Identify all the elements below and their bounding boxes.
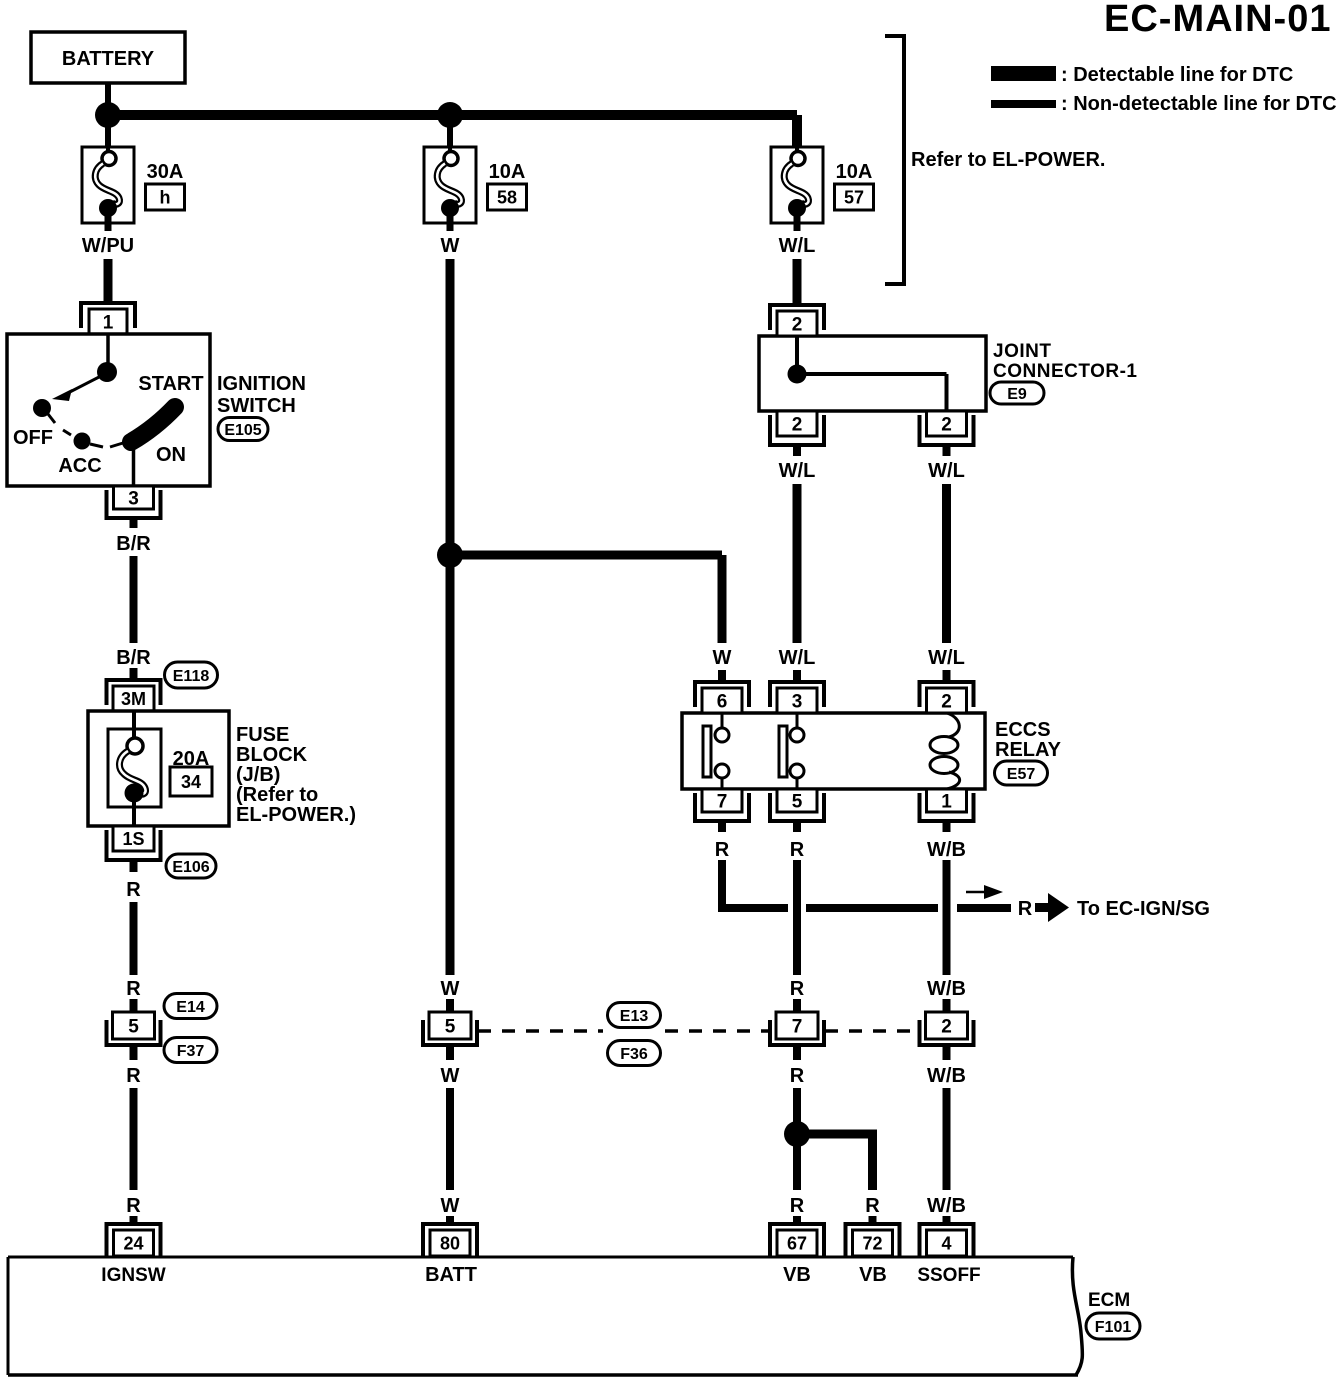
ECCS relay box [682, 713, 985, 789]
wire bus drop to fuse 57 [792, 115, 802, 147]
svg-text:BATT: BATT [425, 1264, 477, 1286]
fuse 30A h [82, 147, 134, 223]
wire W col2 to ECM [446, 1044, 454, 1060]
connector label E14 [164, 994, 217, 1019]
battery B1 [31, 32, 185, 83]
svg-text:OFF: OFF [13, 427, 53, 449]
wire relay pin6 drop [718, 555, 727, 643]
svg-text:7: 7 [717, 791, 728, 812]
connector label E9 [990, 382, 1044, 404]
svg-text:SSOFF: SSOFF [917, 1265, 980, 1286]
wire B/R long [130, 556, 138, 643]
svg-text:EC-MAIN-01: EC-MAIN-01 [1104, 0, 1331, 40]
connector 1S fuse block [107, 830, 161, 860]
relay contact 2 bar [779, 726, 787, 777]
wire pin3 stub [130, 518, 138, 528]
wire battery to junction [105, 83, 111, 104]
svg-text:2: 2 [792, 414, 803, 435]
svg-text:5: 5 [445, 1016, 456, 1037]
connector 3 relay [770, 682, 824, 707]
svg-text:58: 58 [497, 188, 517, 208]
connector 3 ignition switch pin 3 [107, 490, 161, 518]
svg-text:VB: VB [783, 1264, 811, 1286]
svg-text:W/PU: W/PU [82, 235, 134, 257]
svg-text:F36: F36 [620, 1046, 648, 1063]
flow arrow on R wire [966, 891, 990, 894]
fuse 10A 58 [424, 147, 476, 223]
svg-text:10A: 10A [489, 161, 526, 183]
svg-text:R: R [865, 1195, 880, 1217]
svg-text:BATTERY: BATTERY [62, 48, 155, 70]
wire pin7 down and right to EC-IGN/SG [718, 860, 726, 912]
page arrow to EC-IGN/SG [1035, 903, 1049, 912]
connector 5 col2 E13/F36 [423, 1020, 477, 1045]
svg-text:R: R [790, 978, 805, 1000]
contact ACC dot [74, 433, 91, 450]
legend detectable line sample [991, 66, 1056, 81]
svg-text:RELAY: RELAY [995, 739, 1062, 761]
svg-text:W/B: W/B [927, 1065, 966, 1087]
wire junction to relay pin 6 horizontal [450, 551, 722, 560]
svg-text:IGNITION: IGNITION [217, 373, 306, 395]
svg-text:W/L: W/L [928, 460, 965, 482]
wire W long down BATT column [446, 259, 455, 975]
relay contact 1 bar [703, 726, 711, 777]
svg-text:R: R [715, 839, 730, 861]
svg-text:1S: 1S [122, 829, 144, 849]
svg-text:6: 6 [717, 691, 728, 712]
svg-text:BLOCK: BLOCK [236, 744, 308, 766]
svg-text:CONNECTOR-1: CONNECTOR-1 [993, 361, 1138, 382]
svg-text:W/B: W/B [927, 839, 966, 861]
wire W/L col5 long [942, 484, 951, 643]
svg-text:30A: 30A [147, 161, 184, 183]
svg-text:W/B: W/B [927, 978, 966, 1000]
svg-text:Refer to EL-POWER.: Refer to EL-POWER. [911, 149, 1105, 171]
svg-text:B/R: B/R [116, 647, 151, 669]
svg-text:F101: F101 [1095, 1319, 1132, 1336]
svg-text:JOINT: JOINT [993, 341, 1051, 362]
wire R col4 to junction [793, 1044, 801, 1060]
connector 80 ECM [423, 1224, 477, 1256]
node joint connector junction [788, 365, 807, 384]
svg-text:E105: E105 [224, 422, 261, 439]
svg-text:34: 34 [181, 772, 201, 792]
svg-text:E13: E13 [620, 1008, 649, 1025]
svg-text:: Non-detectable line for DTC: : Non-detectable line for DTC [1061, 93, 1337, 115]
svg-text:E106: E106 [172, 859, 209, 876]
bracket refer to EL-POWER [885, 36, 904, 284]
svg-text:5: 5 [128, 1016, 139, 1037]
svg-text:3: 3 [128, 488, 139, 509]
svg-text:FUSE: FUSE [236, 724, 289, 746]
svg-text:B/R: B/R [116, 533, 151, 555]
fuse 10A 57 [771, 147, 823, 223]
connector 5 col1 E14/F37 [107, 1020, 161, 1045]
wire pin1 stub [943, 821, 951, 832]
wire R col1 ECM stub [130, 1216, 138, 1226]
contact OFF tail [48, 414, 55, 423]
connector 2 joint bottom right [920, 415, 974, 445]
fuse block inner fuse 20A 34 [132, 711, 136, 738]
svg-text:W: W [441, 1195, 460, 1217]
svg-text:R: R [126, 1065, 141, 1087]
svg-text:3: 3 [792, 691, 803, 712]
svg-text:F37: F37 [177, 1043, 205, 1060]
connector 72 ECM [846, 1224, 900, 1256]
svg-text:1: 1 [941, 791, 952, 812]
svg-text:1: 1 [103, 312, 114, 333]
wire below connector 5 col1 [130, 1044, 138, 1060]
contact ACC tail [90, 444, 103, 447]
ECM box [1072, 1257, 1082, 1375]
svg-text:W: W [441, 1065, 460, 1087]
node ignition common [97, 362, 117, 382]
wire bus to fuse 58 [447, 115, 453, 147]
svg-text:To EC-IGN/SG: To EC-IGN/SG [1077, 898, 1210, 920]
wire stub above connector 5 col2 [446, 999, 454, 1012]
svg-text:W/L: W/L [779, 460, 816, 482]
svg-text:72: 72 [862, 1233, 882, 1253]
wire W/PU to connector 1 [104, 259, 113, 304]
svg-text:67: 67 [787, 1233, 807, 1253]
wire R col1 [130, 902, 138, 975]
connector label F101 [1086, 1313, 1140, 1339]
svg-text:4: 4 [941, 1233, 951, 1253]
connector label F37 [164, 1038, 217, 1063]
connector label E118 [165, 662, 218, 688]
contact OFF dot [33, 399, 51, 417]
wire 1S stub [130, 860, 138, 872]
joint connector internal wires [795, 336, 799, 374]
contact ON tick [110, 443, 123, 447]
wire W/L to connector 2 relay [943, 670, 951, 683]
svg-text:7: 7 [792, 1016, 803, 1037]
wire pin1 internal [106, 334, 110, 364]
svg-text:START: START [138, 373, 203, 395]
wire R col4 relay pin5 down [793, 860, 801, 975]
svg-text:R: R [790, 1065, 805, 1087]
wire W/B col5 down [943, 860, 951, 975]
node junction W to ECCS [437, 542, 463, 568]
connector 2 joint top [770, 305, 824, 330]
node battery junction [95, 102, 121, 128]
svg-text:R: R [1018, 898, 1033, 920]
wire top bus [108, 110, 797, 120]
svg-text:(J/B): (J/B) [236, 764, 280, 786]
wire fuse 57 to W/L label [794, 215, 801, 231]
connector label E105 [218, 418, 268, 441]
connector 6 relay [695, 682, 749, 707]
svg-text:2: 2 [941, 1016, 952, 1037]
relay contact 1 circles [715, 728, 729, 742]
svg-text:E14: E14 [176, 999, 205, 1016]
svg-text:: Detectable line for DTC: : Detectable line for DTC [1061, 64, 1293, 86]
wire ON to pin 3 [132, 450, 136, 486]
svg-text:R: R [790, 1195, 805, 1217]
wire fuse h to W/PU [105, 215, 112, 231]
connector 4 ECM [920, 1224, 974, 1256]
ON selector arc [131, 407, 175, 442]
svg-text:SWITCH: SWITCH [217, 395, 296, 417]
relay contact 2 circles [790, 728, 804, 742]
connector 1 ignition switch pin 1 [81, 303, 135, 328]
connector label E106 [166, 854, 216, 878]
connector 7 relay bottom [695, 793, 749, 821]
svg-text:2: 2 [792, 314, 803, 335]
svg-text:W: W [441, 978, 460, 1000]
wire joint right pin2 stub [943, 443, 951, 456]
connector label E57 [995, 761, 1048, 785]
relay coil [947, 713, 959, 737]
wire joint left pin2 stub [793, 443, 801, 456]
svg-text:E118: E118 [173, 668, 210, 685]
svg-text:R: R [126, 978, 141, 1000]
wire W/L to joint connector pin 2 [793, 259, 802, 306]
node bus junction at BATT column [437, 102, 463, 128]
wire junction to fuse 30A [105, 115, 111, 147]
svg-text:5: 5 [792, 791, 803, 812]
connector 24 ECM [107, 1224, 161, 1256]
svg-text:W: W [441, 235, 460, 257]
ignition switch E105 box [7, 334, 210, 486]
svg-text:57: 57 [844, 188, 864, 208]
svg-text:ACC: ACC [58, 455, 101, 477]
svg-text:2: 2 [941, 414, 952, 435]
wire stub above 3M [130, 668, 138, 681]
svg-text:ON: ON [156, 444, 186, 466]
connector label E13 [608, 1003, 661, 1028]
svg-text:EL-POWER.): EL-POWER.) [236, 804, 356, 826]
connector 2 col5 [920, 1020, 974, 1045]
wire W/L to connector 3 [793, 670, 801, 683]
connector 3M fuse block [107, 680, 161, 705]
svg-text:VB: VB [859, 1264, 887, 1286]
svg-text:R: R [790, 839, 805, 861]
contact ACC tick [63, 430, 71, 435]
svg-text:E9: E9 [1007, 386, 1027, 403]
wire pin5 stub [793, 821, 801, 832]
joint connector-1 box [759, 336, 986, 411]
switch wiper arrow [62, 376, 101, 396]
svg-text:10A: 10A [836, 161, 873, 183]
svg-text:ECM: ECM [1088, 1290, 1130, 1311]
wire stub above connector 2 col5 [943, 999, 951, 1012]
wire stub above connector 5 col1 [130, 999, 138, 1012]
svg-text:R: R [126, 1195, 141, 1217]
connector 7 col4 [770, 1020, 824, 1045]
legend non-detectable line sample [991, 100, 1056, 108]
connector 1 relay bottom [920, 793, 974, 821]
wire VB branch [793, 1134, 801, 1190]
svg-text:E57: E57 [1007, 766, 1036, 783]
wire W/B col5 to ECM [943, 1044, 951, 1060]
svg-text:W/L: W/L [779, 647, 816, 669]
node VB junction [784, 1121, 810, 1147]
svg-text:80: 80 [440, 1233, 460, 1253]
svg-text:(Refer to: (Refer to [236, 784, 318, 806]
svg-text:ECCS: ECCS [995, 719, 1051, 741]
svg-text:IGNSW: IGNSW [101, 1265, 165, 1286]
fuse block J/B box [88, 711, 229, 826]
wire W to connector 6 [718, 670, 726, 683]
wire pin7 stub [718, 821, 726, 832]
wire fuse 58 to W label [447, 215, 454, 231]
svg-text:2: 2 [941, 691, 952, 712]
svg-text:W/L: W/L [779, 235, 816, 257]
svg-text:24: 24 [123, 1233, 143, 1253]
connector 5 relay bottom [770, 793, 824, 821]
wire R col1 to ECM [130, 1088, 138, 1190]
connector 2 joint bottom left [770, 415, 824, 445]
wire stub above connector 7 [793, 999, 801, 1012]
connector 2 relay [920, 682, 974, 707]
svg-text:3M: 3M [121, 689, 146, 709]
svg-text:R: R [126, 879, 141, 901]
wire W/L col4 long [793, 484, 802, 643]
svg-text:W: W [713, 647, 732, 669]
connector 67 ECM [770, 1224, 824, 1256]
svg-text:W/L: W/L [928, 647, 965, 669]
connector label F36 [608, 1041, 661, 1066]
svg-text:W/B: W/B [927, 1195, 966, 1217]
svg-text:h: h [160, 188, 171, 208]
dashed harness line [478, 1029, 603, 1033]
